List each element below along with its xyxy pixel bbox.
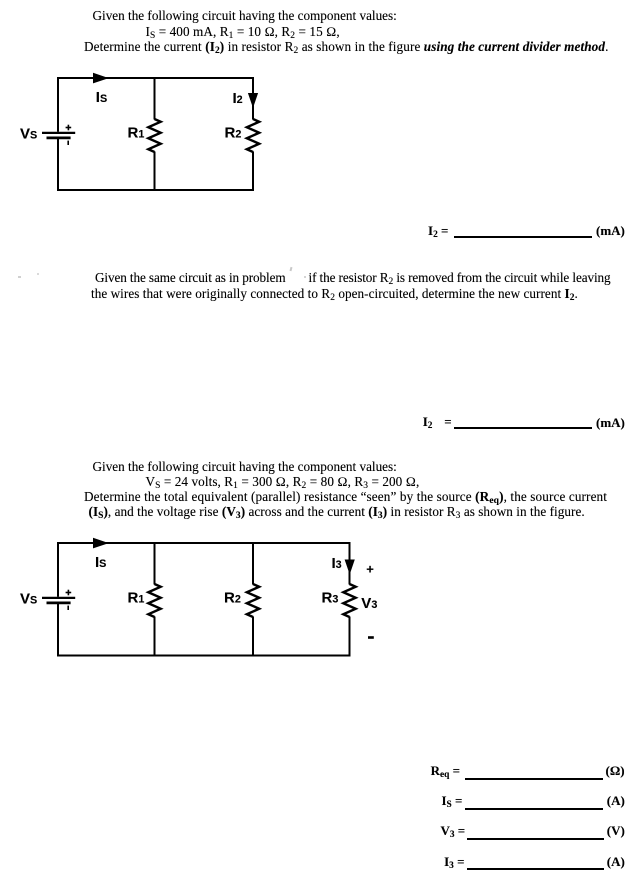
current arrow Is (circuit 1) (93, 73, 109, 84)
svg-text:IS: IS (95, 554, 106, 571)
svg-text:IS: IS (96, 89, 107, 106)
wire: circuit 1 left wire upper segment (57, 77, 59, 132)
wire: circuit 1 R1 branch lower (154, 152, 156, 191)
current arrow Is (circuit 2) (93, 538, 109, 549)
battery minus tick (circuit 2) (67, 606, 69, 610)
wire: circuit 2 R1 branch upper (154, 543, 156, 585)
svg-text:VS: VS (20, 126, 37, 143)
current arrow I3 (circuit 2) (345, 560, 355, 575)
wire: circuit 2 left wire lower segment (57, 604, 59, 657)
resistor R2 (circuit 1) (247, 119, 259, 152)
battery plus sign (circuit 2) (66, 590, 72, 596)
svg-text:R1: R1 (128, 590, 145, 607)
wire: circuit 2 top wire (57, 542, 351, 544)
polarity minus sign of V3 (circuit 2) (368, 636, 374, 639)
battery source Vs (circuit 1): long positive plate (42, 132, 75, 134)
wire: circuit 2 R2 branch lower (252, 617, 254, 656)
resistor R1 (circuit 2) (148, 584, 160, 617)
svg-text:V3: V3 (361, 595, 377, 612)
svg-text:R2: R2 (225, 125, 242, 142)
battery source Vs (circuit 2): long positive plate (42, 597, 75, 599)
svg-text:I2: I2 (233, 90, 243, 107)
svg-text:R3: R3 (322, 590, 339, 607)
wire: circuit 1 R2 branch upper (252, 78, 254, 120)
wire: circuit 2 R2 branch upper (252, 543, 254, 585)
wire: circuit 1 R2 branch lower (252, 152, 254, 191)
svg-text:R1: R1 (128, 125, 145, 142)
battery source Vs (circuit 1): short negative plate (47, 136, 71, 139)
wire: circuit 1 R1 branch upper (154, 78, 156, 120)
svg-text:+: + (366, 561, 374, 576)
battery minus tick (circuit 1) (67, 141, 69, 145)
wire: circuit 2 left wire upper segment (57, 542, 59, 597)
wire: circuit 1 left wire lower segment (57, 139, 59, 191)
resistor R3 (circuit 2) (343, 584, 355, 617)
wire: circuit 2 R3 branch upper (349, 543, 351, 585)
wire: circuit 2 R1 branch lower (154, 617, 156, 656)
resistor R1 (circuit 1) (148, 119, 160, 152)
wire: circuit 2 R3 branch lower (349, 617, 351, 656)
svg-text:I3: I3 (332, 555, 342, 572)
wire: circuit 1 top wire (57, 77, 254, 79)
battery plus sign (circuit 1) (66, 125, 72, 131)
current arrow I2 (circuit 1) (248, 93, 258, 108)
battery source Vs (circuit 2): short negative plate (47, 602, 71, 605)
svg-text:VS: VS (20, 591, 37, 608)
svg-text:R2: R2 (224, 590, 241, 607)
resistor R2 (circuit 2) (247, 584, 259, 617)
wire: circuit 1 bottom wire (57, 189, 254, 191)
wire: circuit 2 bottom wire (57, 655, 351, 657)
